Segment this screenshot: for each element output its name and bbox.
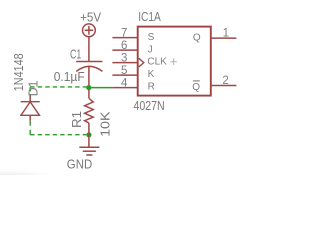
svg-text:C1: C1 (70, 46, 81, 61)
svg-text:S: S (148, 32, 155, 43)
wire bottom node to GND (88, 135, 90, 147)
wire node to D1 (dashed green) (30, 86, 86, 88)
diode D1 symbol (21, 102, 40, 116)
svg-text:10K: 10K (98, 111, 113, 137)
pin 3 stub (112, 62, 137, 64)
svg-text:4027N: 4027N (134, 98, 165, 113)
junction node bottom (86, 132, 91, 137)
IC1A box (138, 27, 211, 96)
svg-text:CLK: CLK (147, 56, 167, 67)
resistor R1 leads (88, 90, 90, 135)
svg-text:Q: Q (193, 32, 201, 43)
wire D1 to bottom net (dashed green) (29, 121, 31, 135)
svg-text:7: 7 (121, 27, 127, 39)
svg-text:4: 4 (121, 77, 128, 89)
wire C1 to node (88, 67, 90, 88)
svg-text:1: 1 (223, 27, 229, 39)
svg-text:R: R (148, 81, 155, 92)
svg-text:R1: R1 (69, 111, 84, 128)
clock wedge (139, 58, 144, 67)
Qbar overline (193, 80, 200, 82)
junction node top (86, 85, 91, 90)
ground symbol (79, 147, 99, 155)
svg-text:J: J (148, 44, 153, 55)
svg-text:GND: GND (67, 157, 92, 172)
svg-text:Q: Q (192, 82, 200, 93)
pin 1 stub (211, 37, 237, 39)
supply +5V symbol (83, 24, 96, 37)
svg-text:2: 2 (222, 75, 228, 87)
svg-text:IC1A: IC1A (138, 9, 161, 24)
capacitor C1 (76, 62, 102, 72)
svg-text:3: 3 (121, 52, 127, 64)
pin 5 stub (112, 74, 137, 76)
CLK plus mark (170, 59, 176, 65)
pin 7 stub (112, 37, 137, 39)
wire +5V to C1 (88, 37, 90, 62)
svg-text:1N4148: 1N4148 (11, 53, 26, 91)
wire node to pin 4 (solid green) (89, 87, 113, 89)
diode D1 leads (29, 95, 31, 121)
svg-text:0.1µF: 0.1µF (54, 69, 85, 84)
pin 2 stub (211, 85, 237, 87)
svg-text:D1: D1 (26, 81, 41, 97)
bottom edge shade (0, 168, 52, 175)
resistor R1 zigzag (85, 98, 94, 123)
svg-text:K: K (148, 69, 155, 80)
svg-text:5: 5 (121, 65, 127, 77)
pin 6 stub (112, 49, 137, 51)
pin 4 stub (112, 87, 137, 89)
svg-text:6: 6 (121, 40, 127, 52)
svg-text:+5V: +5V (80, 9, 101, 24)
